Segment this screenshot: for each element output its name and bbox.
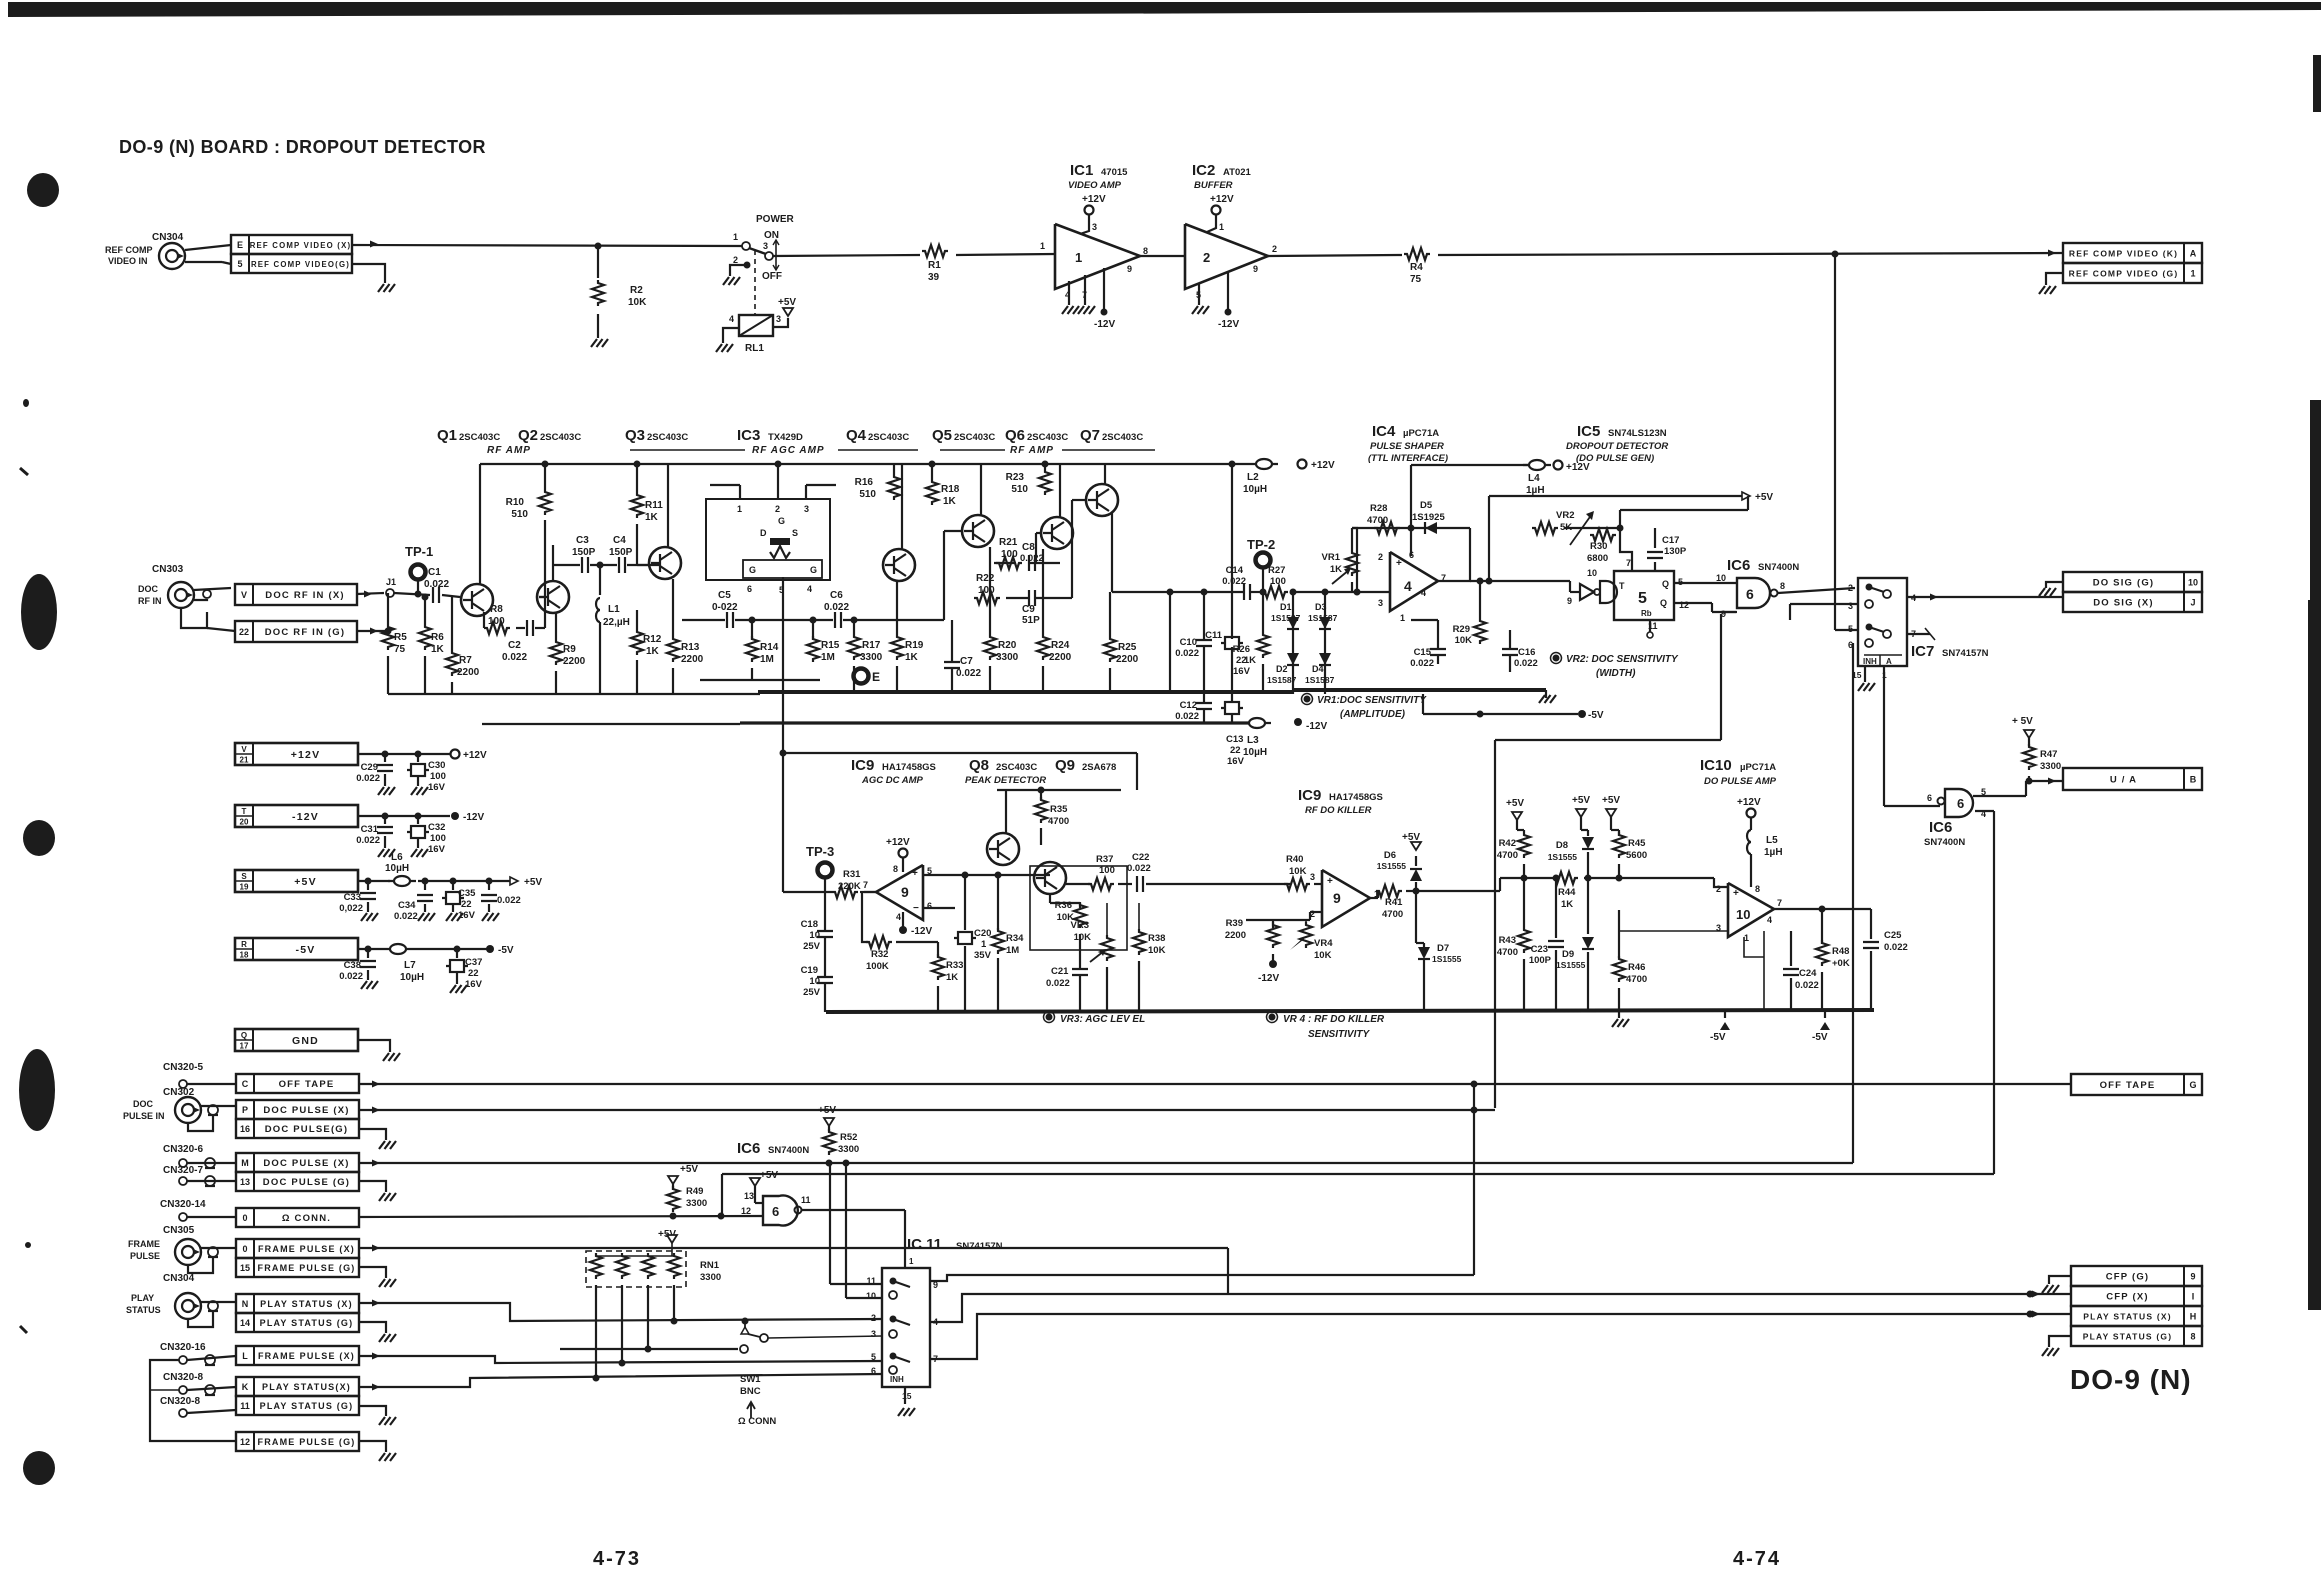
svg-text:GND: GND (292, 1035, 319, 1047)
svg-text:5: 5 (1638, 590, 1647, 607)
svg-text:RL1: RL1 (745, 343, 764, 354)
svg-text:3: 3 (776, 314, 781, 324)
svg-text:PLAY STATUS (X): PLAY STATUS (X) (2083, 1312, 2172, 1322)
svg-text:0.022: 0.022 (1410, 658, 1434, 669)
svg-text:D: D (760, 528, 767, 538)
svg-text:R32: R32 (871, 949, 888, 960)
svg-text:R10: R10 (506, 497, 525, 508)
svg-text:0.022: 0.022 (1127, 863, 1151, 874)
svg-text:10µH: 10µH (400, 972, 424, 983)
svg-text:Ω CONN: Ω CONN (738, 1416, 776, 1427)
svg-text:10: 10 (1736, 907, 1750, 922)
svg-text:-12V: -12V (1306, 721, 1327, 732)
svg-text:L6: L6 (391, 852, 403, 863)
svg-text:8: 8 (2190, 1332, 2195, 1342)
svg-text:0.022: 0.022 (1175, 711, 1199, 722)
svg-text:BNC: BNC (740, 1386, 761, 1397)
svg-text:A: A (1886, 657, 1892, 666)
svg-text:25V: 25V (803, 941, 821, 952)
svg-text:2200: 2200 (1049, 652, 1072, 663)
svg-text:-5V: -5V (498, 945, 514, 956)
svg-text:16V: 16V (458, 910, 476, 921)
svg-text:L5: L5 (1766, 835, 1778, 846)
svg-text:6: 6 (772, 1204, 779, 1219)
svg-text:+12V: +12V (1210, 194, 1234, 205)
svg-text:DO PULSE AMP: DO PULSE AMP (1704, 776, 1777, 787)
svg-text:Q: Q (1660, 598, 1667, 608)
svg-text:3300: 3300 (686, 1198, 707, 1209)
svg-text:RF DO KILLER: RF DO KILLER (1305, 805, 1372, 816)
svg-text:IC5: IC5 (1577, 423, 1600, 440)
svg-text:100K: 100K (866, 961, 889, 972)
svg-text:10K: 10K (1148, 945, 1166, 956)
svg-text:G: G (778, 516, 785, 526)
svg-text:OFF: OFF (762, 271, 782, 282)
svg-text:DOC RF IN (G): DOC RF IN (G) (265, 627, 346, 638)
svg-text:G: G (810, 565, 817, 575)
svg-text:16V: 16V (428, 782, 446, 793)
svg-text:+12V: +12V (1737, 797, 1761, 808)
svg-text:-5V: -5V (1588, 710, 1604, 721)
svg-text:4: 4 (1404, 578, 1412, 594)
svg-text:1: 1 (1400, 613, 1405, 623)
svg-text:1: 1 (1040, 241, 1045, 251)
svg-text:VR3: VR3 (1071, 920, 1089, 931)
svg-text:R6: R6 (431, 632, 444, 643)
svg-text:C31: C31 (361, 824, 379, 835)
svg-text:13: 13 (240, 1177, 250, 1187)
svg-text:7: 7 (863, 880, 868, 890)
svg-text:POWER: POWER (756, 214, 795, 225)
svg-text:+12V: +12V (1566, 462, 1590, 473)
svg-text:VR1: VR1 (1322, 552, 1341, 563)
svg-text:G: G (2189, 1080, 2196, 1090)
svg-text:C12: C12 (1180, 700, 1197, 711)
svg-text:C5: C5 (718, 590, 731, 601)
svg-text:3: 3 (1092, 222, 1097, 232)
svg-text:DOC PULSE (X): DOC PULSE (X) (263, 1158, 349, 1169)
svg-text:22: 22 (1230, 745, 1241, 756)
svg-text:L: L (242, 1351, 248, 1361)
svg-text:P: P (242, 1105, 248, 1115)
svg-text:HA17458GS: HA17458GS (882, 762, 936, 773)
svg-text:S: S (241, 872, 247, 881)
svg-text:OFF TAPE: OFF TAPE (2100, 1080, 2156, 1091)
svg-text:CN305: CN305 (163, 1225, 195, 1236)
svg-text:2: 2 (733, 255, 738, 265)
svg-text:AT021: AT021 (1223, 167, 1252, 178)
svg-text:3300: 3300 (860, 652, 883, 663)
svg-text:4: 4 (1767, 915, 1772, 925)
svg-text:IC3: IC3 (737, 427, 760, 444)
svg-text:DO SIG (G): DO SIG (G) (2093, 578, 2155, 589)
svg-text:2: 2 (1203, 250, 1210, 265)
svg-text:Q5: Q5 (932, 427, 952, 444)
svg-text:R5: R5 (394, 632, 407, 643)
svg-text:8: 8 (1143, 246, 1148, 256)
svg-text:0.022: 0.022 (394, 911, 418, 922)
svg-text:C18: C18 (801, 919, 818, 930)
svg-text:K: K (242, 1382, 249, 1392)
svg-text:SN74LS123N: SN74LS123N (1608, 428, 1667, 439)
svg-text:16: 16 (240, 1124, 250, 1134)
svg-text:PLAY STATUS (G): PLAY STATUS (G) (260, 1401, 354, 1411)
svg-text:C2: C2 (508, 640, 521, 651)
svg-text:7: 7 (1626, 558, 1631, 568)
svg-text:+12V: +12V (291, 749, 321, 761)
svg-text:+5V: +5V (524, 877, 542, 888)
svg-text:(WIDTH): (WIDTH) (1596, 668, 1636, 679)
svg-text:Ω CONN.: Ω CONN. (282, 1213, 331, 1224)
svg-text:C22: C22 (1132, 852, 1149, 863)
svg-text:+12V: +12V (1311, 460, 1335, 471)
svg-text:1K: 1K (1561, 899, 1573, 910)
svg-text:R45: R45 (1628, 838, 1646, 849)
svg-text:4700: 4700 (1626, 974, 1647, 985)
svg-text:FRAME PULSE (X): FRAME PULSE (X) (258, 1244, 355, 1254)
svg-text:4700: 4700 (1048, 816, 1069, 827)
svg-text:4: 4 (729, 314, 734, 324)
svg-text:PLAY STATUS(X): PLAY STATUS(X) (262, 1382, 351, 1392)
svg-text:3300: 3300 (2040, 761, 2061, 772)
svg-text:R48: R48 (1832, 946, 1849, 957)
svg-text:10K: 10K (628, 297, 647, 308)
svg-text:1K: 1K (1244, 655, 1256, 666)
svg-text:CN320-7: CN320-7 (163, 1165, 203, 1176)
svg-text:SN74157N: SN74157N (1942, 648, 1989, 659)
svg-text:PLAY STATUS (G): PLAY STATUS (G) (260, 1318, 354, 1328)
svg-text:T: T (242, 807, 247, 816)
svg-text:R14: R14 (760, 642, 779, 653)
svg-text:100: 100 (1270, 576, 1286, 587)
svg-text:2SC403C: 2SC403C (459, 432, 500, 443)
svg-text:R52: R52 (840, 1132, 857, 1143)
svg-text:17: 17 (240, 1042, 249, 1051)
svg-text:1: 1 (909, 1257, 914, 1266)
svg-text:RF IN: RF IN (138, 596, 162, 606)
svg-text:CN320-5: CN320-5 (163, 1062, 203, 1073)
svg-text:R24: R24 (1051, 640, 1070, 651)
svg-text:2SC403C: 2SC403C (868, 432, 909, 443)
svg-text:1S1925: 1S1925 (1412, 512, 1445, 523)
svg-text:21: 21 (240, 756, 249, 765)
svg-text:C4: C4 (613, 535, 626, 546)
svg-text:12: 12 (240, 1437, 250, 1447)
svg-text:CN320-16: CN320-16 (160, 1342, 206, 1353)
svg-text:CN320-14: CN320-14 (160, 1199, 206, 1210)
svg-text:4700: 4700 (1382, 909, 1403, 920)
svg-text:22,µH: 22,µH (603, 617, 630, 628)
svg-text:10µH: 10µH (1243, 747, 1267, 758)
svg-text:6: 6 (1409, 550, 1414, 560)
svg-text:R13: R13 (681, 642, 700, 653)
svg-text:C25: C25 (1884, 930, 1902, 941)
svg-text:10: 10 (809, 930, 820, 941)
svg-text:-12V: -12V (1218, 319, 1239, 330)
svg-text:10: 10 (866, 1291, 876, 1301)
svg-text:+12V: +12V (886, 837, 910, 848)
svg-text:100: 100 (430, 833, 446, 844)
svg-text:RN1: RN1 (700, 1260, 720, 1271)
svg-text:R39: R39 (1226, 918, 1243, 929)
svg-text:5: 5 (237, 259, 242, 269)
svg-text:12: 12 (1679, 600, 1689, 610)
svg-text:FRAME PULSE (G): FRAME PULSE (G) (258, 1263, 356, 1273)
svg-text:CN304: CN304 (163, 1273, 195, 1284)
svg-text:-12V: -12V (1094, 319, 1115, 330)
svg-text:4700: 4700 (1497, 947, 1518, 958)
svg-text:+: + (1733, 888, 1739, 899)
svg-text:CN320-8: CN320-8 (160, 1396, 200, 1407)
svg-text:Q2: Q2 (518, 427, 538, 444)
svg-text:-12V: -12V (292, 811, 319, 823)
svg-text:2200: 2200 (1116, 654, 1139, 665)
svg-text:13: 13 (744, 1191, 754, 1201)
svg-text:Q1: Q1 (437, 427, 457, 444)
svg-text:D5: D5 (1420, 500, 1433, 511)
svg-text:12: 12 (741, 1206, 751, 1216)
svg-text:+: + (1396, 558, 1402, 569)
svg-text:D2: D2 (1276, 664, 1288, 674)
svg-text:2SC403C: 2SC403C (996, 762, 1037, 773)
svg-text:FRAME PULSE (G): FRAME PULSE (G) (258, 1437, 356, 1447)
svg-text:10µH: 10µH (385, 863, 409, 874)
svg-text:SW1: SW1 (740, 1374, 761, 1385)
svg-text:2SA678: 2SA678 (1082, 762, 1116, 773)
svg-text:R17: R17 (862, 640, 881, 651)
svg-text:E: E (237, 240, 243, 250)
svg-text:5: 5 (871, 1352, 876, 1362)
svg-text:10: 10 (2188, 578, 2198, 588)
svg-text:R4: R4 (1410, 262, 1423, 273)
svg-text:10: 10 (1587, 568, 1597, 578)
svg-text:V: V (241, 590, 247, 600)
svg-text:3: 3 (1848, 601, 1853, 611)
svg-text:C34: C34 (398, 900, 416, 911)
svg-text:0.022: 0.022 (1046, 978, 1070, 989)
svg-text:C14: C14 (1226, 565, 1244, 576)
svg-text:6: 6 (747, 584, 752, 594)
svg-text:PLAY STATUS (X): PLAY STATUS (X) (260, 1299, 353, 1309)
svg-text:8: 8 (1755, 884, 1760, 894)
svg-text:9: 9 (2190, 1272, 2195, 1282)
svg-text:6: 6 (1927, 793, 1932, 803)
svg-text:AGC DC AMP: AGC DC AMP (861, 775, 924, 786)
svg-text:-12V: -12V (911, 926, 932, 937)
svg-text:2200: 2200 (457, 667, 480, 678)
svg-text:DROPOUT DETECTOR: DROPOUT DETECTOR (1566, 441, 1668, 452)
svg-text:C9: C9 (1022, 604, 1035, 615)
svg-text:2200: 2200 (681, 654, 704, 665)
svg-text:10: 10 (809, 976, 820, 987)
svg-text:10K: 10K (1074, 932, 1092, 943)
svg-text:Rb: Rb (1641, 609, 1652, 618)
svg-text:RF AMP: RF AMP (1010, 445, 1054, 456)
svg-text:FRAME: FRAME (128, 1239, 160, 1249)
svg-text:A: A (2190, 249, 2197, 259)
svg-text:R34: R34 (1006, 933, 1024, 944)
svg-text:4700: 4700 (1367, 515, 1388, 526)
svg-text:SN7400N: SN7400N (1758, 562, 1799, 573)
svg-text:3: 3 (804, 504, 809, 514)
svg-text:1: 1 (733, 232, 738, 242)
svg-text:R33: R33 (946, 960, 963, 971)
svg-text:4-74: 4-74 (1733, 1548, 1781, 1570)
svg-text:2: 2 (871, 1313, 876, 1323)
svg-text:R41: R41 (1385, 897, 1403, 908)
svg-text:Q4: Q4 (846, 427, 867, 444)
svg-text:220K: 220K (838, 881, 861, 892)
svg-text:4700: 4700 (1497, 850, 1518, 861)
svg-text:1S1555: 1S1555 (1548, 852, 1578, 862)
svg-text:PEAK DETECTOR: PEAK DETECTOR (965, 775, 1046, 786)
svg-text:130P: 130P (1664, 546, 1687, 557)
svg-text:1K: 1K (431, 644, 445, 655)
svg-text:1K: 1K (646, 646, 660, 657)
svg-text:D4: D4 (1312, 664, 1324, 674)
svg-text:DOC PULSE (G): DOC PULSE (G) (263, 1177, 350, 1188)
svg-text:+5V: +5V (818, 1105, 836, 1116)
svg-text:C29: C29 (361, 762, 378, 773)
svg-text:IC2: IC2 (1192, 162, 1215, 179)
svg-text:V: V (241, 745, 247, 754)
svg-text:CN303: CN303 (152, 564, 184, 575)
svg-text:IC9: IC9 (1298, 787, 1321, 804)
svg-text:REF COMP VIDEO (K): REF COMP VIDEO (K) (2069, 249, 2178, 259)
svg-text:µPC71A: µPC71A (1740, 762, 1776, 773)
svg-text:R8: R8 (490, 604, 503, 615)
svg-text:0.022: 0.022 (356, 835, 380, 846)
svg-text:0.022: 0.022 (497, 895, 521, 906)
svg-text:PULSE SHAPER: PULSE SHAPER (1370, 441, 1444, 452)
svg-text:C24: C24 (1799, 968, 1817, 979)
svg-text:C33: C33 (344, 892, 361, 903)
svg-text:R20: R20 (998, 640, 1017, 651)
svg-text:G: G (749, 565, 756, 575)
svg-text:0.022: 0.022 (824, 602, 849, 613)
svg-text:2: 2 (1272, 244, 1277, 254)
svg-text:Q8: Q8 (969, 757, 989, 774)
svg-text:VR2: DOC SENSITIVITY: VR2: DOC SENSITIVITY (1566, 654, 1679, 665)
svg-text:TP-2: TP-2 (1247, 537, 1275, 552)
svg-text:C8: C8 (1022, 542, 1035, 553)
svg-text:L2: L2 (1247, 472, 1259, 483)
svg-text:SN74157N: SN74157N (956, 1241, 1003, 1252)
svg-text:DOC RF IN (X): DOC RF IN (X) (265, 590, 344, 601)
svg-text:R9: R9 (563, 644, 576, 655)
svg-text:C1: C1 (428, 567, 441, 578)
svg-text:1S1555: 1S1555 (1377, 861, 1407, 871)
svg-text:C13: C13 (1226, 734, 1243, 745)
svg-text:L1: L1 (608, 604, 620, 615)
svg-text:8: 8 (1780, 581, 1785, 591)
svg-text:D9: D9 (1562, 949, 1574, 960)
svg-text:2SC403C: 2SC403C (647, 432, 688, 443)
svg-text:-5V: -5V (296, 944, 316, 956)
svg-text:+5V: +5V (1506, 798, 1524, 809)
svg-text:1M: 1M (1006, 945, 1019, 956)
svg-text:R18: R18 (941, 484, 960, 495)
svg-text:INH: INH (890, 1375, 904, 1384)
svg-text:22: 22 (239, 627, 249, 637)
svg-text:3: 3 (1378, 598, 1383, 608)
svg-text:Q: Q (1662, 579, 1669, 589)
svg-text:D6: D6 (1384, 850, 1396, 861)
svg-text:D1: D1 (1280, 602, 1292, 612)
svg-text:R36: R36 (1055, 900, 1072, 911)
svg-text:IC10: IC10 (1700, 757, 1732, 774)
svg-text:1K: 1K (1330, 564, 1342, 575)
svg-text:SENSITIVITY: SENSITIVITY (1308, 1029, 1370, 1040)
svg-text:3300: 3300 (996, 652, 1019, 663)
svg-text:D7: D7 (1437, 943, 1449, 954)
svg-text:IC7: IC7 (1911, 643, 1934, 660)
svg-text:1K: 1K (946, 972, 958, 983)
svg-text:C23: C23 (1531, 944, 1548, 955)
svg-text:R21: R21 (999, 537, 1018, 548)
svg-text:100P: 100P (1529, 955, 1552, 966)
svg-text:19: 19 (240, 883, 249, 892)
svg-text:0.022: 0.022 (424, 579, 449, 590)
svg-text:-12V: -12V (463, 812, 484, 823)
svg-text:DOC: DOC (133, 1099, 154, 1109)
svg-text:510: 510 (859, 489, 876, 500)
svg-text:TP-3: TP-3 (806, 844, 834, 859)
svg-text:B: B (2190, 775, 2197, 785)
svg-text:9: 9 (1127, 264, 1132, 274)
svg-text:2SC403C: 2SC403C (954, 432, 995, 443)
svg-text:R25: R25 (1118, 642, 1137, 653)
svg-text:SN7400N: SN7400N (768, 1145, 809, 1156)
svg-text:-12V: -12V (1258, 973, 1279, 984)
svg-text:IC1: IC1 (1070, 162, 1093, 179)
svg-text:R7: R7 (459, 655, 472, 666)
svg-text:R: R (241, 940, 247, 949)
svg-text:PLAY STATUS (G): PLAY STATUS (G) (2083, 1332, 2172, 1342)
svg-text:10K: 10K (1289, 866, 1307, 877)
svg-text:Q6: Q6 (1005, 427, 1025, 444)
svg-text:FRAME PULSE (X): FRAME PULSE (X) (258, 1351, 355, 1361)
svg-text:15: 15 (902, 1391, 912, 1401)
svg-text:1K: 1K (905, 652, 919, 663)
svg-text:6800: 6800 (1587, 553, 1608, 564)
svg-text:R46: R46 (1628, 962, 1645, 973)
svg-text:1: 1 (2190, 269, 2195, 279)
svg-text:R40: R40 (1286, 854, 1303, 865)
svg-text:1S1587: 1S1587 (1308, 613, 1338, 623)
svg-text:4-73: 4-73 (593, 1548, 641, 1570)
svg-text:1K: 1K (943, 496, 957, 507)
svg-text:C17: C17 (1662, 535, 1679, 546)
svg-text:+5V: +5V (778, 297, 796, 308)
svg-text:100: 100 (430, 771, 446, 782)
svg-text:9: 9 (901, 884, 909, 900)
svg-text:+12V: +12V (463, 750, 487, 761)
svg-text:R19: R19 (905, 640, 924, 651)
svg-text:C35: C35 (458, 888, 476, 899)
svg-text:STATUS: STATUS (126, 1305, 161, 1315)
svg-text:µPC71A: µPC71A (1403, 428, 1439, 439)
svg-text:C30: C30 (428, 760, 445, 771)
svg-text:2: 2 (1848, 583, 1853, 593)
svg-text:C10: C10 (1180, 637, 1197, 648)
svg-text:E: E (872, 670, 880, 684)
svg-text:Q9: Q9 (1055, 757, 1075, 774)
svg-text:0.022: 0.022 (956, 668, 981, 679)
svg-text:BUFFER: BUFFER (1194, 180, 1233, 191)
svg-text:CFP (G): CFP (G) (2106, 1272, 2150, 1283)
svg-text:4: 4 (1421, 588, 1426, 598)
